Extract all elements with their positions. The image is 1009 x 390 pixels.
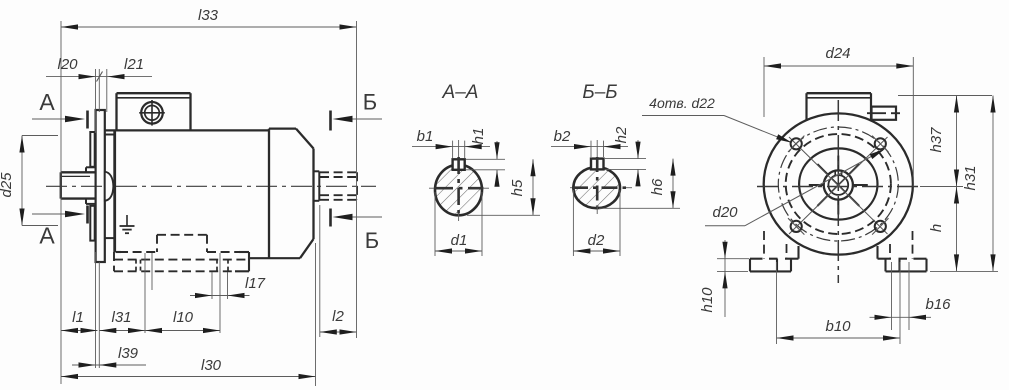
svg-text:l21: l21 [124, 56, 144, 73]
b1 dimension [452, 141, 454, 158]
svg-text:A: A [39, 223, 55, 249]
svg-text:l20: l20 [57, 56, 78, 73]
svg-text:l31: l31 [111, 309, 131, 326]
h5 dimension [467, 214, 540, 216]
b2 dimension [590, 141, 592, 157]
dimension b16 [870, 316, 932, 318]
front terminal box [807, 92, 872, 94]
svg-text:l30: l30 [201, 357, 222, 374]
outer housing circle [764, 113, 913, 254]
svg-text:h6: h6 [649, 178, 666, 195]
svg-text:h1: h1 [470, 128, 487, 145]
svg-text:d1: d1 [451, 232, 468, 249]
keyway A-A [453, 159, 465, 170]
svg-text:h5: h5 [509, 179, 526, 196]
dimension d24 [764, 65, 913, 67]
h2 dimension [605, 158, 646, 160]
dimension l2 [320, 331, 357, 333]
dimension h [956, 187, 958, 272]
shaft boss on flange [105, 172, 114, 201]
inner solid circle [799, 148, 877, 219]
svg-text:l10: l10 [173, 309, 194, 326]
foot step solid [239, 251, 249, 253]
hub cross [831, 178, 845, 192]
dimension l39 [72, 364, 146, 366]
svg-text:l17: l17 [245, 275, 266, 292]
dimension h37 [956, 96, 958, 187]
bolt holes 4x d22 [791, 138, 802, 149]
keyway B-B [591, 159, 604, 170]
svg-text:h37: h37 [928, 127, 945, 153]
dimension h31 [992, 96, 994, 272]
section mark B top [350, 118, 382, 120]
flange disc bars [90, 132, 94, 167]
svg-text:А–А: А–А [442, 82, 479, 103]
d2 dimension [572, 190, 574, 256]
flange plate [96, 110, 105, 262]
shaft section circle B-B [573, 167, 620, 208]
hub keyway notch [834, 171, 836, 176]
dimension l20 l21 [46, 76, 152, 78]
svg-text:b2: b2 [554, 128, 571, 145]
svg-text:d2: d2 [588, 232, 605, 249]
dimension b10 [777, 337, 901, 339]
screw symbol [141, 102, 163, 124]
extension lines left view [60, 21, 62, 384]
svg-text:l39: l39 [118, 345, 139, 362]
dimension l30 [61, 376, 316, 378]
conduit box [872, 107, 897, 120]
front left foot [750, 258, 763, 260]
svg-text:h10: h10 [699, 287, 716, 313]
front view centerlines [837, 100, 839, 283]
section mark A top [32, 118, 70, 120]
hub inner [828, 175, 848, 195]
hub spokes [849, 196, 859, 206]
svg-text:d20: d20 [712, 204, 738, 221]
svg-text:l33: l33 [198, 7, 219, 24]
svg-text:l2: l2 [332, 308, 344, 325]
svg-text:Б–Б: Б–Б [582, 82, 617, 103]
section mark A bottom [32, 213, 70, 215]
h6 dimension [599, 207, 680, 209]
right shaft hidden [320, 171, 357, 173]
svg-text:l1: l1 [72, 309, 84, 326]
svg-text:A: A [39, 89, 55, 115]
dimension h10 [724, 240, 726, 317]
d1 dimension [434, 192, 436, 256]
dimension l31 [99, 330, 145, 332]
dimension l1 [61, 330, 98, 332]
svg-text:d24: d24 [825, 45, 850, 62]
terminal box [117, 92, 191, 94]
h1 dimension [466, 158, 505, 160]
dimension l10 [145, 330, 220, 332]
bolt circle centerline [778, 127, 898, 241]
svg-text:b10: b10 [825, 318, 851, 335]
centerline left view [46, 185, 376, 187]
svg-text:Б: Б [363, 90, 377, 115]
shaft section circle A-A [435, 165, 482, 216]
svg-text:h: h [928, 224, 945, 232]
feet hidden lines [157, 234, 207, 236]
end shield bell [268, 130, 270, 258]
extension lines front view [763, 57, 765, 117]
svg-text:Б: Б [365, 228, 379, 253]
ground symbol [126, 215, 128, 226]
dimension l33 [61, 26, 357, 28]
dimension d25 [21, 136, 23, 226]
svg-text:h2: h2 [613, 126, 630, 143]
diagonal centerlines [789, 137, 888, 234]
right shaft hub [314, 170, 320, 172]
front view [750, 93, 927, 283]
svg-text:4отв. d22: 4отв. d22 [649, 95, 715, 111]
section mark B bottom [350, 216, 382, 218]
dimension l17 [190, 295, 250, 297]
front right foot [878, 258, 892, 260]
left view: motor side elevation [46, 93, 376, 271]
motor body [113, 130, 116, 252]
section B-B [551, 82, 680, 256]
hub outer [824, 170, 853, 199]
hidden circle [786, 134, 891, 234]
svg-text:h31: h31 [962, 165, 979, 190]
svg-text:b1: b1 [417, 128, 434, 145]
svg-text:d25: d25 [0, 172, 15, 198]
svg-text:b16: b16 [925, 296, 951, 313]
left shaft [61, 171, 96, 173]
